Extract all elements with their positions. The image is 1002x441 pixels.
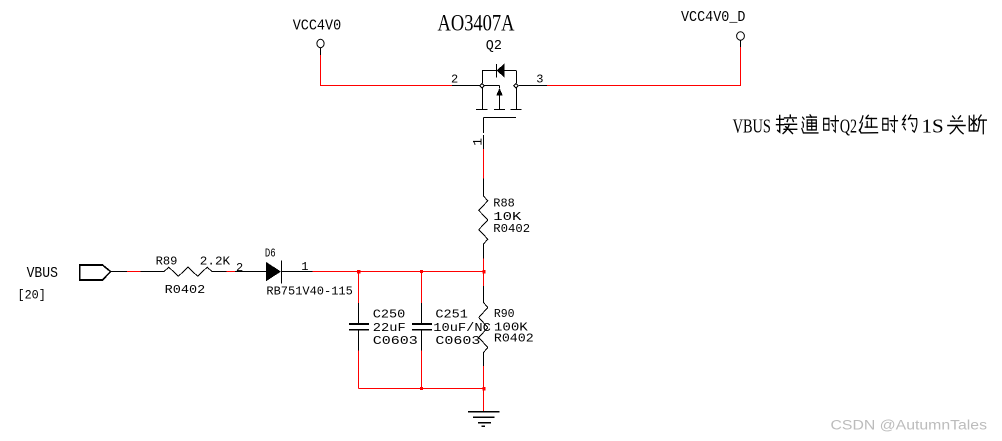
power port VCC4V0: [317, 39, 324, 55]
junction C251 top: [420, 270, 423, 273]
Q2 drain pin diamond: [514, 83, 519, 88]
svg-text:10uF/NC: 10uF/NC: [433, 321, 491, 335]
ground: [468, 412, 500, 426]
svg-text:VBUS: VBUS: [27, 266, 58, 282]
svg-text:2: 2: [451, 72, 458, 86]
svg-text:R0402: R0402: [493, 222, 530, 236]
wire Q2 gate down: [483, 149, 485, 179]
transistor Q2: [476, 71, 522, 149]
svg-text:C251: C251: [435, 308, 468, 322]
annotation glyph 约: [902, 115, 916, 132]
annotation glyph 接: [777, 115, 797, 133]
capacitor C251: [412, 272, 432, 389]
svg-text:Q2: Q2: [486, 39, 502, 54]
pin 3 lead: [519, 85, 547, 87]
svg-text:22uF: 22uF: [373, 321, 406, 335]
annotation: VBUS接通时Q2延时约1S关断: [733, 116, 944, 138]
junction ground node: [482, 387, 485, 390]
annotation glyph 断: [969, 115, 986, 134]
wire D6 to node: [313, 271, 485, 273]
svg-text:VCC4V0: VCC4V0: [293, 19, 342, 35]
svg-text:Q2: Q2: [840, 116, 857, 138]
svg-text:R0402: R0402: [165, 283, 206, 297]
capacitor C250: [349, 272, 369, 389]
junction C250 top: [357, 270, 360, 273]
port VBUS: [80, 265, 111, 280]
svg-text:AO3407A: AO3407A: [438, 11, 515, 36]
wire port to R89: [111, 271, 127, 273]
svg-text:C250: C250: [373, 308, 406, 322]
wire node to R90: [483, 272, 485, 287]
junction node R88/R90: [482, 270, 485, 273]
svg-text:1: 1: [301, 260, 308, 274]
Q2 body diode: [497, 63, 505, 77]
Q2 arrow: [496, 88, 503, 96]
wire node to ground: [483, 389, 485, 412]
svg-text:[20]: [20]: [18, 287, 46, 302]
annotation glyph 关: [948, 116, 965, 134]
svg-text:C0603: C0603: [435, 334, 480, 348]
svg-text:1: 1: [471, 138, 486, 146]
svg-text:R88: R88: [493, 197, 515, 211]
wire Q2 pin3 to VCC4V0_D: [547, 47, 741, 86]
svg-text:2.2K: 2.2K: [200, 255, 231, 269]
svg-text:CSDN @AutumnTales: CSDN @AutumnTales: [831, 418, 988, 434]
svg-text:3: 3: [536, 73, 543, 87]
svg-text:VCC4V0_D: VCC4V0_D: [681, 10, 746, 26]
wire R89 to D6: [227, 271, 236, 273]
svg-text:C0603: C0603: [373, 334, 418, 348]
svg-text:R90: R90: [494, 307, 515, 321]
annotation glyph 时 (1): [824, 116, 839, 132]
resistor R89: [141, 267, 227, 276]
svg-text:RB751V40-115: RB751V40-115: [266, 284, 352, 298]
wire R90 to bottom node: [483, 366, 485, 389]
svg-text:R0402: R0402: [494, 332, 534, 346]
resistor R88: [479, 179, 488, 259]
svg-text:R89: R89: [156, 255, 178, 269]
svg-text:1S: 1S: [922, 116, 944, 138]
power port VCC4V0_D: [737, 32, 745, 47]
junction C251 bottom: [420, 387, 423, 390]
svg-text:2: 2: [236, 261, 243, 275]
Q2 source pin diamond: [480, 83, 485, 88]
svg-text:VBUS: VBUS: [733, 116, 771, 138]
annotation glyph 延: [859, 115, 877, 133]
wire R88 to node: [483, 259, 485, 272]
resistor R90: [479, 286, 488, 366]
svg-text:D6: D6: [265, 247, 276, 261]
wire bottom rail: [359, 388, 485, 390]
wire VCC4V0 to Q2 pin2: [321, 55, 453, 86]
annotation glyph 通: [802, 115, 818, 133]
diode D6: [235, 261, 313, 284]
pin 2 lead: [452, 85, 480, 87]
wire: [127, 271, 141, 273]
annotation glyph 时 (2): [883, 116, 898, 132]
